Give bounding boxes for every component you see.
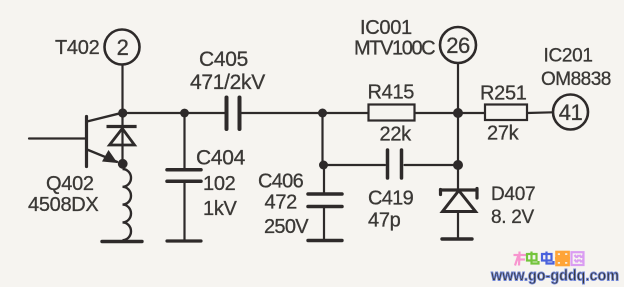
svg-text:22k: 22k xyxy=(380,124,413,146)
svg-text:OM8838: OM8838 xyxy=(541,69,611,90)
svg-text:250V: 250V xyxy=(264,216,309,238)
svg-text:1kV: 1kV xyxy=(203,198,238,220)
svg-text:2: 2 xyxy=(117,35,129,60)
svg-text:47p: 47p xyxy=(368,210,401,232)
svg-text:Q402: Q402 xyxy=(46,173,94,195)
svg-text:C419: C419 xyxy=(368,188,414,210)
svg-text:IC001: IC001 xyxy=(360,17,412,39)
svg-text:102: 102 xyxy=(203,173,236,195)
svg-text:472: 472 xyxy=(265,192,298,214)
svg-text:C404: C404 xyxy=(196,147,246,170)
svg-text:R251: R251 xyxy=(480,83,527,105)
svg-text:T402: T402 xyxy=(55,37,100,59)
svg-text:471/2kV: 471/2kV xyxy=(190,71,265,94)
svg-text:C406: C406 xyxy=(258,171,304,193)
svg-text:27k: 27k xyxy=(487,123,520,145)
svg-text:www.go-gddq.com: www.go-gddq.com xyxy=(490,268,619,285)
svg-text:8. 2V: 8. 2V xyxy=(491,207,534,228)
svg-text:D407: D407 xyxy=(491,184,535,205)
svg-text:IC201: IC201 xyxy=(544,46,593,67)
svg-text:26: 26 xyxy=(446,33,470,58)
svg-text:MTV100C: MTV100C xyxy=(354,38,435,60)
svg-text:4508DX: 4508DX xyxy=(28,194,98,216)
svg-text:C405: C405 xyxy=(199,48,248,71)
svg-text:R415: R415 xyxy=(368,82,415,104)
svg-text:41: 41 xyxy=(559,100,583,125)
